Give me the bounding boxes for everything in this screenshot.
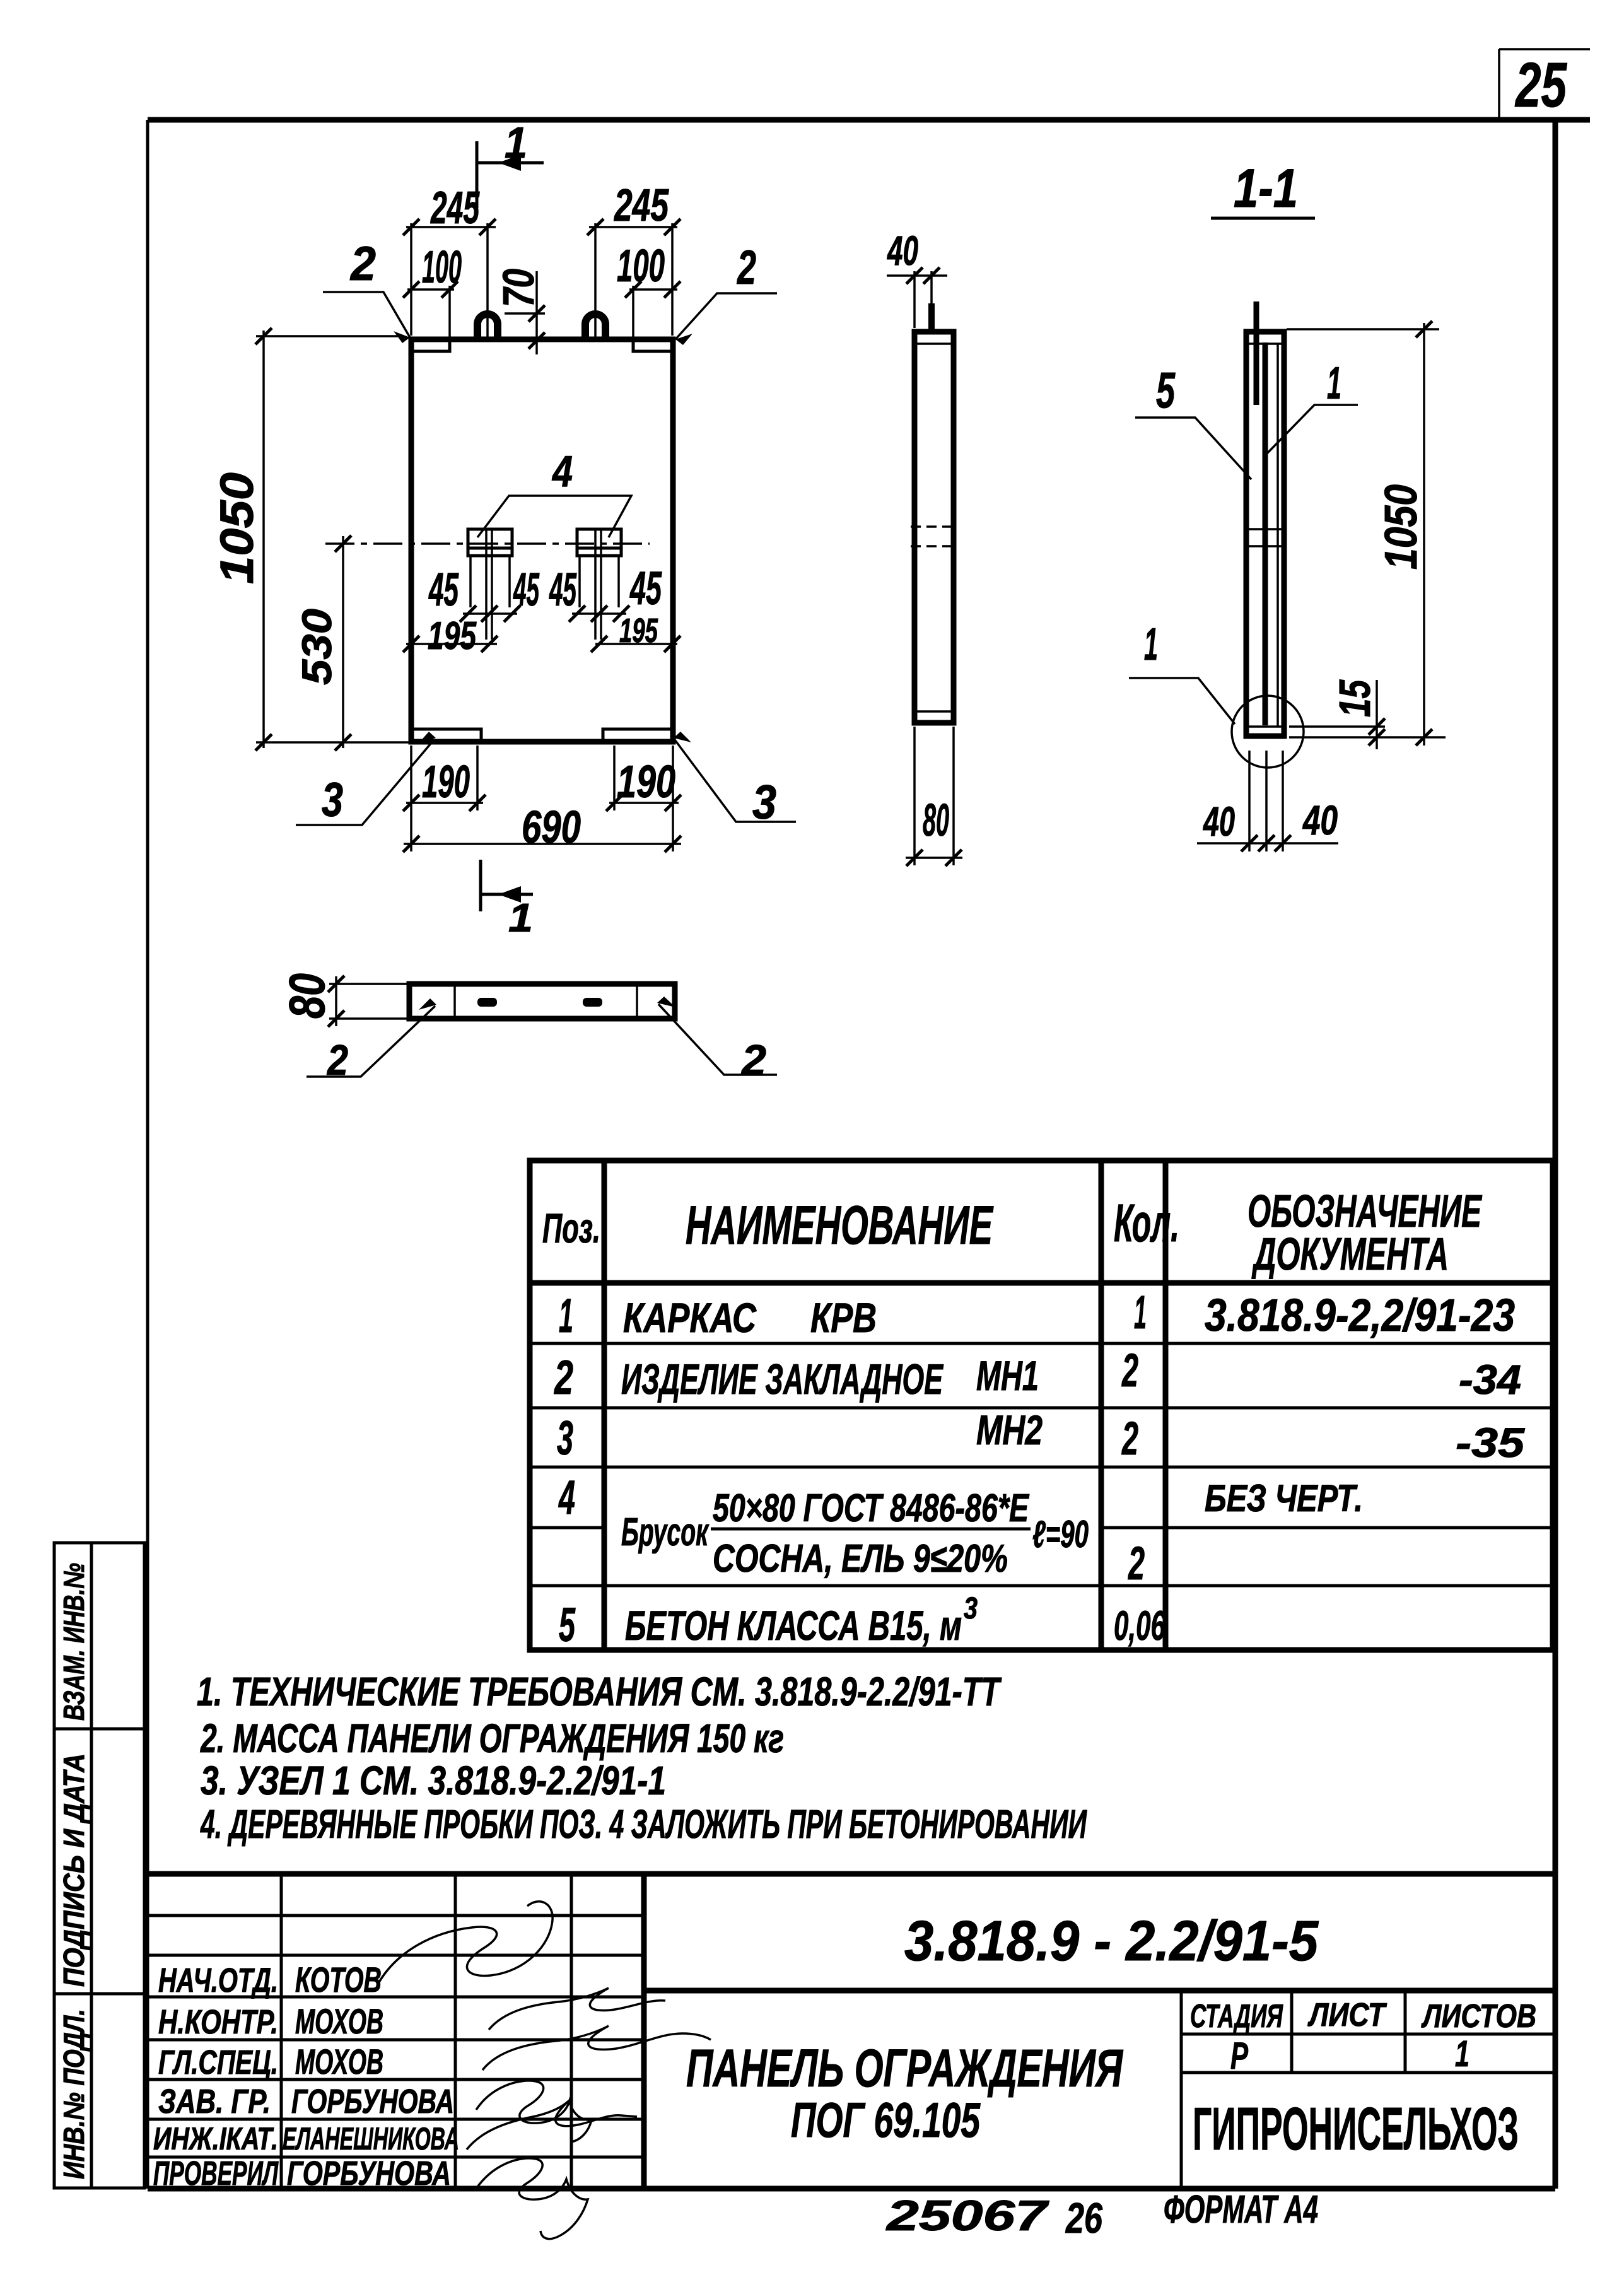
svg-text:1: 1 (1455, 2033, 1469, 2074)
svg-text:190: 190 (422, 757, 470, 807)
svg-text:Поз.: Поз. (542, 1205, 600, 1251)
svg-text:530: 530 (293, 609, 340, 685)
top-left embedded plate MH1 (411, 341, 450, 351)
svg-text:3. УЗЕЛ 1 СМ. 3.818.9-2.2/9: 3. УЗЕЛ 1 СМ. 3.818.9-2.2/91-1 (201, 1758, 666, 1803)
svg-text:Р: Р (1230, 2035, 1249, 2077)
svg-text:195: 195 (428, 614, 477, 658)
dim 1050 left (262, 330, 265, 748)
lifting loop left (477, 314, 498, 341)
svg-text:ЛИСТОВ: ЛИСТОВ (1421, 1998, 1536, 2035)
svg-text:1: 1 (1134, 1286, 1147, 1338)
svg-text:МОХОВ: МОХОВ (295, 2042, 383, 2081)
dim 190 left (406, 802, 483, 804)
svg-text:70: 70 (494, 269, 543, 307)
bottom cap plate (914, 710, 954, 713)
top cap plate (914, 342, 954, 345)
svg-text:БЕЗ ЧЕРТ.: БЕЗ ЧЕРТ. (1205, 1477, 1363, 1519)
svg-text:3.818.9 - 2.2/91-5: 3.818.9 - 2.2/91-5 (904, 1910, 1319, 1973)
slot right (583, 998, 602, 1007)
dims 45 left (463, 612, 517, 615)
svg-text:ПОГ 69.105: ПОГ 69.105 (791, 2092, 981, 2148)
svg-text:ИНВ.№ ПОДЛ.: ИНВ.№ ПОДЛ. (57, 2009, 90, 2179)
svg-text:ГЛ.СПЕЦ.: ГЛ.СПЕЦ. (158, 2044, 278, 2081)
dim 530 left (342, 536, 344, 748)
svg-text:ПОДПИСЬ И ДАТА: ПОДПИСЬ И ДАТА (57, 1753, 90, 1987)
pin on top (928, 303, 935, 333)
svg-text:КОТОВ: КОТОВ (295, 1960, 382, 1999)
svg-text:1050: 1050 (1376, 484, 1427, 570)
svg-text:-34: -34 (1459, 1356, 1521, 1403)
svg-text:4: 4 (551, 447, 573, 496)
svg-text:ЗАВ. ГР.: ЗАВ. ГР. (158, 2083, 271, 2120)
svg-text:ГОРБУНОВА: ГОРБУНОВА (287, 2155, 451, 2192)
svg-text:СТАДИЯ: СТАДИЯ (1190, 1998, 1283, 2035)
dim 690 (404, 843, 681, 845)
svg-text:ДОКУМЕНТА: ДОКУМЕНТА (1251, 1229, 1449, 1280)
svg-text:0,06: 0,06 (1114, 1602, 1166, 1649)
bottom-left embedded plate MH2 (411, 729, 481, 740)
bar outline (914, 332, 954, 723)
svg-text:ЕЛАНЕШНИКОВА: ЕЛАНЕШНИКОВА (283, 2121, 459, 2156)
dim 195 right (595, 643, 677, 645)
rebar frame KP8 (1263, 342, 1268, 725)
svg-text:26: 26 (1065, 2194, 1102, 2242)
svg-text:50×80 ГОСТ 8486-86*Е: 50×80 ГОСТ 8486-86*Е (713, 1487, 1029, 1530)
svg-text:ℓ=90: ℓ=90 (1032, 1513, 1089, 1555)
hidden joint dashed (911, 525, 954, 528)
svg-text:100: 100 (422, 242, 462, 293)
svg-text:45: 45 (428, 563, 459, 616)
svg-text:Кол.: Кол. (1114, 1193, 1179, 1253)
svg-text:СОСНА, ЕЛЬ 9≤20%: СОСНА, ЕЛЬ 9≤20% (713, 1537, 1008, 1581)
svg-text:2: 2 (737, 241, 756, 295)
svg-text:МН2: МН2 (976, 1407, 1043, 1453)
dim 100 right (629, 288, 677, 291)
dim 245 right (589, 226, 677, 228)
svg-text:2: 2 (554, 1351, 573, 1405)
top-right embedded plate MH1 (633, 341, 672, 351)
dim 195 left (406, 643, 497, 645)
slot left (477, 998, 497, 1007)
dims 45 right (572, 612, 626, 615)
svg-text:5: 5 (559, 1598, 576, 1652)
board bottom line (1247, 725, 1284, 728)
plan outline (409, 984, 675, 1019)
svg-text:Н.КОНТР.: Н.КОНТР. (158, 2003, 278, 2041)
svg-text:2: 2 (1128, 1537, 1145, 1589)
svg-text:1. ТЕХНИЧЕСКИЕ ТРЕБОВАНИЯ СМ: 1. ТЕХНИЧЕСКИЕ ТРЕБОВАНИЯ СМ. 3.818.9-2.… (197, 1669, 1002, 1714)
table grid (530, 1161, 1553, 1650)
svg-text:2. МАССА ПАНЕЛИ ОГРАЖДЕНИЯ: 2. МАССА ПАНЕЛИ ОГРАЖДЕНИЯ 150 кг (200, 1716, 784, 1761)
lifting loop right (585, 314, 605, 341)
wood plug left (468, 529, 512, 556)
NOTES (197, 1669, 1087, 1847)
svg-text:1-1: 1-1 (1234, 158, 1298, 219)
svg-text:45: 45 (513, 563, 540, 616)
section mark 1 top (476, 141, 479, 208)
board line (1276, 344, 1279, 727)
svg-text:2: 2 (1121, 1412, 1138, 1465)
svg-text:1: 1 (1327, 358, 1341, 409)
svg-text:2: 2 (740, 1036, 766, 1084)
svg-text:ВЗАМ. ИНВ.№: ВЗАМ. ИНВ.№ (57, 1563, 90, 1721)
svg-text:ФОРМАТ А4: ФОРМАТ А4 (1164, 2188, 1318, 2231)
svg-text:80: 80 (279, 973, 335, 1019)
svg-text:3: 3 (557, 1412, 573, 1465)
LEFT STRIP (54, 1543, 144, 2188)
svg-text:1: 1 (559, 1289, 573, 1343)
BOTTOM VIEW (279, 973, 777, 1084)
right plate edge (636, 984, 638, 1019)
svg-text:ИЗДЕЛИЕ ЗАКЛАДНОЕ: ИЗДЕЛИЕ ЗАКЛАДНОЕ (621, 1355, 944, 1403)
svg-text:25067: 25067 (885, 2192, 1049, 2240)
svg-text:ПРОВЕРИЛ: ПРОВЕРИЛ (153, 2155, 279, 2192)
signature scribbles (377, 1902, 552, 1986)
dim 70 (535, 271, 538, 354)
svg-text:3.818.9-2,2/91-23: 3.818.9-2,2/91-23 (1205, 1290, 1515, 1341)
svg-text:МОХОВ: МОХОВ (295, 2001, 383, 2041)
svg-text:40: 40 (1302, 797, 1338, 843)
joint lines (1246, 528, 1284, 530)
svg-text:ЛИСТ: ЛИСТ (1307, 1997, 1387, 2033)
svg-text:2: 2 (1121, 1344, 1138, 1396)
svg-text:4: 4 (558, 1471, 575, 1524)
svg-text:МН1: МН1 (976, 1352, 1039, 1399)
svg-text:1: 1 (508, 895, 533, 940)
dim 1050 (1423, 323, 1425, 746)
center line of plugs (325, 542, 650, 545)
svg-text:1050: 1050 (211, 472, 263, 584)
svg-text:ПАНЕЛЬ ОГРАЖДЕНИЯ: ПАНЕЛЬ ОГРАЖДЕНИЯ (686, 2038, 1123, 2098)
svg-text:-35: -35 (1456, 1419, 1525, 1466)
svg-text:НАЧ.ОТД.: НАЧ.ОТД. (158, 1962, 278, 1999)
dim 80 (335, 976, 337, 1026)
pin on top (1254, 301, 1259, 405)
dim 245 left (406, 226, 496, 228)
svg-text:245: 245 (430, 183, 480, 233)
svg-text:БЕТОН КЛАССА В15, м: БЕТОН КЛАССА В15, м (625, 1602, 962, 1649)
svg-text:245: 245 (614, 180, 669, 231)
svg-text:1: 1 (1144, 619, 1158, 670)
svg-text:3: 3 (322, 773, 343, 827)
svg-text:25: 25 (1515, 50, 1567, 120)
dim 15 (1289, 725, 1385, 728)
dim 190 right (609, 802, 679, 804)
svg-text:100: 100 (617, 241, 665, 291)
top cap plate (1246, 342, 1284, 345)
svg-text:1: 1 (505, 118, 527, 167)
FRONT VIEW (211, 118, 796, 940)
TABLE (530, 1161, 1553, 1652)
TITLE BLOCK (148, 1874, 1555, 2242)
svg-text:195: 195 (619, 612, 658, 650)
wood plug right (577, 529, 621, 556)
svg-text:80: 80 (923, 795, 949, 846)
left plate edge (453, 984, 456, 1019)
svg-text:НАИМЕНОВАНИЕ: НАИМЕНОВАНИЕ (686, 1195, 994, 1256)
panel outline (411, 339, 673, 742)
svg-text:КРВ: КРВ (810, 1294, 877, 1341)
svg-text:2: 2 (349, 237, 376, 291)
svg-text:45: 45 (629, 562, 662, 614)
svg-text:4. ДЕРЕВЯННЫЕ ПРОБКИ ПОЗ. 4: 4. ДЕРЕВЯННЫЕ ПРОБКИ ПОЗ. 4 ЗАЛОЖИТЬ ПРИ… (200, 1801, 1088, 1847)
svg-text:5: 5 (1156, 362, 1176, 418)
SIDE VIEW (887, 227, 962, 866)
svg-text:ГИПРОНИСЕЛЬХОЗ: ГИПРОНИСЕЛЬХОЗ (1193, 2095, 1519, 2163)
section mark 1 bottom (479, 860, 482, 911)
svg-text:3: 3 (964, 1592, 978, 1625)
svg-text:15: 15 (1330, 679, 1379, 717)
svg-text:Брусок: Брусок (621, 1511, 710, 1554)
svg-text:190: 190 (617, 757, 675, 807)
detail circle node 1 (1232, 696, 1304, 768)
bar outline (1246, 332, 1284, 736)
bottom-right embedded plate MH2 (603, 729, 673, 740)
svg-text:45: 45 (549, 563, 577, 616)
svg-text:КАРКАС: КАРКАС (623, 1294, 757, 1341)
dims 40 40 bottom (1197, 842, 1338, 845)
svg-text:ГОРБУНОВА: ГОРБУНОВА (291, 2083, 454, 2120)
svg-text:40: 40 (887, 227, 919, 274)
SECTION 1-1 (1129, 158, 1446, 851)
svg-text:ИНЖ.IКАТ.: ИНЖ.IКАТ. (153, 2121, 278, 2156)
dim 100 left (407, 288, 454, 291)
svg-text:40: 40 (1203, 798, 1236, 845)
svg-text:690: 690 (522, 802, 581, 853)
